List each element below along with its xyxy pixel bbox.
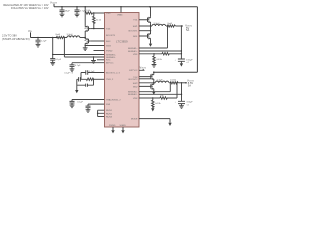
wire SENSE3- kelvin: [64, 38, 104, 58]
capacitor 2.2uF at VIN: [37, 38, 39, 41]
capacitor 4.7uF INTVCC: [71, 63, 73, 65]
wire BG2 source to ground: [153, 90, 155, 92]
resistor 100k (VFB3 top): [84, 7, 86, 26]
wire buck2 feed row: [154, 71, 198, 73]
resistor 30.1k (VFB3 bottom, vertical): [93, 13, 95, 16]
wire SENSE2+ kelvin: [139, 83, 170, 92]
svg-text:×2: ×2: [186, 61, 189, 64]
svg-text:ITH1, 2: ITH1, 2: [106, 79, 114, 81]
svg-text:20k: 20k: [160, 95, 164, 97]
wire SW3 row: [85, 44, 104, 45]
resistor sense RS1: [166, 25, 168, 27]
ground stub SGND: [93, 56, 94, 57]
svg-text:10mΩ: 10mΩ: [170, 80, 176, 82]
wire SW2 row: [139, 80, 155, 83]
resistor sense RS2: [169, 82, 170, 84]
wire TRACK/SS row: [72, 99, 105, 101]
resistor sense RS3 8mOhm: [57, 36, 65, 38]
svg-text:SENSE3+: SENSE3+: [106, 55, 116, 57]
svg-text:0.1µF: 0.1µF: [77, 101, 83, 103]
transistor M2B (buck2 bottom fet): [153, 82, 155, 85]
wire VFB2 row: [139, 97, 160, 99]
svg-text:SGND: SGND: [120, 125, 127, 127]
wire VFB1 row: [139, 53, 162, 55]
wire TG3 source to SW: [84, 32, 86, 38]
wire PGND row: [94, 50, 105, 52]
inductor L2 4.7uH: [155, 81, 169, 83]
wire BOOST row with capacitor: [81, 70, 105, 79]
capacitor COUT1 150uF: [178, 59, 185, 61]
svg-text:64.9k: 64.9k: [155, 103, 161, 105]
wire TG1 drain to rail: [150, 7, 152, 17]
svg-text:4.7µF: 4.7µF: [75, 65, 81, 67]
inductor L3 3.3uH: [64, 37, 67, 39]
svg-text:SENSE2–: SENSE2–: [128, 94, 138, 96]
capacitor COUT2 150uF: [178, 101, 185, 103]
wire BG3 gate row: [90, 40, 104, 42]
svg-text:BG3: BG3: [106, 41, 111, 43]
svg-text:LTC3859: LTC3859: [116, 40, 128, 44]
svg-text:SENSE1+: SENSE1+: [128, 48, 138, 50]
svg-text:×2: ×2: [186, 103, 189, 106]
svg-text:8mΩ: 8mΩ: [56, 34, 61, 36]
svg-text:BOOST1, 2, 3: BOOST1, 2, 3: [106, 72, 121, 74]
svg-text:BG1: BG1: [133, 36, 138, 38]
wire TG2 drain: [153, 72, 155, 73]
svg-text:NTC: NTC: [106, 60, 111, 62]
wire SENSE1- kelvin: [139, 26, 181, 59]
svg-text:30.1k: 30.1k: [96, 19, 102, 21]
svg-text:150µF: 150µF: [186, 59, 193, 61]
ground PGND pin: [112, 127, 114, 130]
wire INTVCC row: [72, 62, 105, 64]
svg-text:68µF: 68µF: [65, 10, 71, 12]
svg-text:0.1µF: 0.1µF: [55, 59, 61, 61]
ground SGND pin: [122, 127, 124, 130]
svg-text:RUN1: RUN1: [106, 110, 113, 112]
wire SW1 row: [139, 23, 152, 26]
svg-text:SW1: SW1: [133, 26, 139, 28]
svg-text:SENSE1–: SENSE1–: [128, 51, 138, 53]
svg-text:INTVCC: INTVCC: [106, 63, 114, 65]
svg-text:BOOST2: BOOST2: [129, 79, 139, 81]
op IC U1 LTC3859 body: [105, 13, 140, 128]
ground BG3 source: [84, 46, 86, 48]
svg-text:+: +: [175, 102, 177, 104]
resistor divider R bottom 64.9k: [153, 54, 155, 56]
transistor M3B (boost bottom fet): [84, 37, 86, 40]
svg-text:0.1µF ×3: 0.1µF ×3: [64, 72, 74, 75]
wire RUN tie bracket: [98, 110, 105, 116]
capacitor C2 4.7uF on VOUT3: [76, 7, 78, 10]
svg-text:+: +: [175, 59, 177, 61]
transistor M3T (boost top fet): [84, 26, 90, 32]
wire SENSE3+ kelvin: [53, 38, 105, 55]
svg-text:OV3: OV3: [106, 13, 111, 15]
wire BOOST1 row: [139, 30, 151, 32]
svg-text:VOUT3: VOUT3: [50, 0, 57, 4]
resistor divider2 R top: [160, 83, 177, 99]
resistor divider2 R bottom 64.9k: [152, 98, 154, 100]
svg-text:VFB2: VFB2: [133, 98, 138, 100]
transistor M1B (buck1 bottom fet): [150, 26, 152, 33]
wire BG1 source to ground: [150, 39, 152, 43]
wire VOUT3 rail: [54, 4, 197, 72]
transistor M2T (buck2 top fet): [139, 74, 154, 80]
svg-text:BOOST1: BOOST1: [129, 31, 139, 33]
svg-text:3A: 3A: [188, 84, 191, 88]
wire BOOST2 row: [139, 78, 151, 80]
svg-text:SW3: SW3: [106, 46, 112, 48]
svg-text:0.1µF: 0.1µF: [89, 71, 95, 73]
svg-text:RUN3: RUN3: [106, 117, 113, 119]
svg-text:VIN: VIN: [28, 29, 32, 33]
svg-text:TRACK/SS1, 2: TRACK/SS1, 2: [106, 98, 121, 101]
svg-text:3.3µH: 3.3µH: [154, 23, 160, 25]
svg-text:RUN2: RUN2: [106, 113, 113, 115]
svg-text:150µF: 150µF: [186, 102, 193, 104]
capacitor 1uF filter: [52, 55, 54, 59]
svg-text:EXTVCC: EXTVCC: [129, 70, 138, 72]
svg-text:8mΩ: 8mΩ: [168, 23, 173, 25]
svg-text:3.3µH: 3.3µH: [67, 34, 73, 36]
svg-text:PGND: PGND: [106, 51, 113, 53]
svg-text:VFB1: VFB1: [133, 54, 138, 56]
capacitor C1 68uF on VOUT3: [61, 7, 63, 10]
wire NTC row: [97, 59, 105, 61]
wire SENSE1+ kelvin: [139, 26, 168, 48]
svg-text:BOOST3: BOOST3: [106, 35, 116, 37]
wire SS3 row: [88, 103, 105, 105]
wire VIN rail: [31, 32, 57, 37]
svg-text:PGND: PGND: [109, 125, 116, 127]
svg-text:BG2: BG2: [133, 86, 138, 88]
wire SENSE2- kelvin: [139, 83, 182, 102]
svg-text:64.9k: 64.9k: [157, 59, 163, 61]
wire VBIAS top pin: [120, 7, 122, 13]
svg-text:4.7µH: 4.7µH: [157, 80, 163, 82]
svg-text:MODE: MODE: [131, 119, 138, 121]
svg-text:SW2: SW2: [133, 83, 139, 85]
node junction dots on rail: [61, 6, 63, 8]
svg-text:2.2µF: 2.2µF: [41, 41, 47, 43]
ITH1,2 network: [94, 78, 105, 80]
svg-text:5A: 5A: [186, 28, 189, 32]
resistor divider R top (zigzag to VOUT1): [162, 53, 181, 55]
wire MODE row to ground: [139, 119, 170, 123]
svg-text:(START-UP ABOVE 5V): (START-UP ABOVE 5V): [2, 37, 30, 41]
svg-text:VBIAS: VBIAS: [117, 14, 123, 17]
capacitor 0.1uF track: [71, 100, 73, 102]
wire TG3 gate row: [90, 28, 104, 30]
inductor L1 3.3uH: [152, 24, 166, 26]
capacitor 0.1uF ss3: [87, 104, 89, 106]
svg-text:FOLLOWS VIN WHEN VIN < 10V: FOLLOWS VIN WHEN VIN < 10V: [11, 6, 49, 10]
transistor M1T (buck1 top fet): [139, 17, 151, 23]
